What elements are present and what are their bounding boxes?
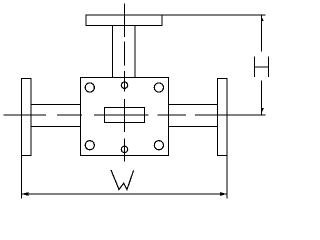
- H extension line from handle: [162, 14, 266, 16]
- center port rectangle: [105, 108, 145, 123]
- H dimension line: [261, 15, 263, 115]
- W dimension line: [22, 193, 228, 195]
- bolt hole bottom-right: [154, 141, 163, 150]
- left pipe bottom wire: [31, 126, 81, 128]
- right flange: [218, 79, 228, 156]
- stem right wire: [134, 26, 136, 78]
- bolt hole top-right: [154, 83, 163, 92]
- right pipe bottom wire: [169, 126, 218, 128]
- W extension line right: [226, 156, 228, 199]
- label H: [255, 56, 269, 77]
- bottom port small circle: [121, 146, 127, 152]
- horizontal centerline (pipe axis): [4, 114, 266, 116]
- W dimension arrow right: [220, 192, 227, 196]
- handle bar (top): [86, 15, 162, 26]
- H dimension arrow top: [262, 16, 264, 21]
- stem left wire: [112, 26, 114, 78]
- bolt hole bottom-left: [85, 141, 94, 150]
- H dimension arrow bottom: [262, 108, 264, 113]
- left pipe top wire: [31, 104, 81, 106]
- bolt hole top-left: [85, 83, 94, 92]
- right pipe top wire: [169, 104, 218, 106]
- label W: [111, 170, 134, 190]
- W dimension arrow left: [22, 192, 29, 196]
- W extension line left: [21, 156, 23, 199]
- vertical centerline (stem axis): [124, 3, 126, 161]
- valve body square: [81, 78, 169, 156]
- left flange: [22, 79, 32, 156]
- top port small circle: [121, 82, 127, 88]
